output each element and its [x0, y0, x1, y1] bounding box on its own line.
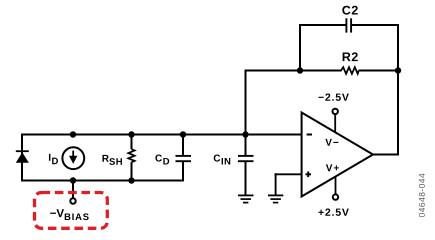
negative supply stub and terminal circle — [333, 109, 338, 133]
capacitor CIN — [238, 134, 254, 196]
wire: C2 branch left vertical — [299, 24, 301, 72]
wire: op-amp output — [372, 154, 399, 156]
capacitor C2 (plates) — [346, 18, 351, 32]
label ID — [49, 154, 58, 164]
label figure number 04648-044 — [419, 174, 425, 218]
diode D (photodiode), cathode bar up — [16, 151, 29, 163]
wire: C2 row left segment — [299, 24, 346, 26]
wire: C2 row right segment — [352, 24, 399, 26]
label R2 — [343, 52, 358, 61]
wire: bottom rail — [21, 180, 184, 182]
wire: -VBIAS stub — [72, 182, 74, 199]
label RSH — [102, 155, 122, 165]
wire: feedback horizontal R2 row — [245, 70, 342, 72]
resistor R2 (horizontal zigzag) — [341, 67, 359, 74]
wire: R2 row right segment — [359, 70, 400, 72]
node: junction dot CIN / feedback tap — [242, 131, 248, 137]
label -VBIAS — [50, 209, 88, 220]
op-amp U1 triangle — [302, 113, 373, 197]
terminal circle -VBIAS — [70, 198, 75, 203]
wire: ground stub at + input — [275, 173, 277, 195]
node: junction dot RSH bottom — [128, 177, 134, 183]
highlight box (red dashed) around -VBIAS — [35, 193, 108, 229]
positive supply stub and terminal circle — [333, 177, 338, 200]
node: junction dot current source top — [70, 131, 76, 137]
label V- inside op-amp — [325, 139, 338, 146]
node: junction dot RSH top — [128, 131, 134, 137]
label -2.5V — [318, 93, 348, 100]
resistor RSH (vertical zigzag) — [128, 134, 134, 182]
label CD — [155, 155, 169, 165]
wire: main top rail — [21, 134, 303, 136]
node: junction dot CD top — [180, 131, 186, 137]
node: junction dot feedback left (C2 tap) — [297, 67, 303, 73]
label C2 — [342, 6, 357, 15]
ground at + input — [268, 195, 283, 202]
wire: feedback left vertical from CIN node up — [245, 70, 247, 136]
node: junction dot feedback right — [395, 67, 401, 73]
label +2.5V — [318, 208, 348, 215]
wire: left rail (diode branch) — [21, 134, 23, 182]
node: junction dot current source bottom — [70, 177, 76, 183]
wire: non-inverting input to ground — [275, 173, 302, 175]
label CIN — [214, 155, 231, 165]
current source ID circle with down arrow — [62, 147, 84, 169]
op-amp inverting input mark — [307, 134, 312, 136]
label V+ inside op-amp — [326, 164, 339, 171]
op-amp non-inverting input mark — [306, 172, 312, 178]
wire: feedback right vertical down to output — [397, 24, 399, 156]
capacitor CD — [176, 134, 192, 182]
ground below CIN — [238, 195, 254, 202]
